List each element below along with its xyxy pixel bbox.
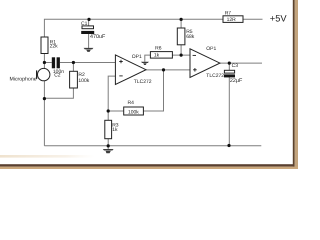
- svg-text:1k: 1k: [154, 53, 160, 59]
- svg-text:TLC272: TLC272: [206, 73, 224, 79]
- svg-text:+5V: +5V: [270, 14, 288, 24]
- svg-text:470uF: 470uF: [90, 34, 106, 40]
- svg-text:C3: C3: [232, 63, 239, 69]
- svg-text:OP1: OP1: [132, 54, 142, 60]
- svg-text:C1: C1: [81, 21, 88, 27]
- svg-text:1k: 1k: [112, 127, 118, 133]
- svg-text:12R: 12R: [227, 17, 237, 23]
- svg-text:22µF: 22µF: [230, 78, 243, 84]
- svg-text:R7: R7: [225, 10, 232, 16]
- svg-text:TLC272: TLC272: [134, 79, 152, 85]
- svg-text:Microphone: Microphone: [9, 76, 36, 82]
- svg-text:R4: R4: [128, 100, 135, 106]
- svg-text:OP1: OP1: [206, 46, 216, 52]
- svg-text:22k: 22k: [50, 43, 59, 49]
- svg-text:100k: 100k: [128, 109, 139, 115]
- svg-text:R6: R6: [155, 46, 162, 52]
- svg-text:100k: 100k: [78, 78, 89, 84]
- svg-text:68k: 68k: [186, 34, 195, 40]
- svg-text:C2: C2: [54, 73, 61, 79]
